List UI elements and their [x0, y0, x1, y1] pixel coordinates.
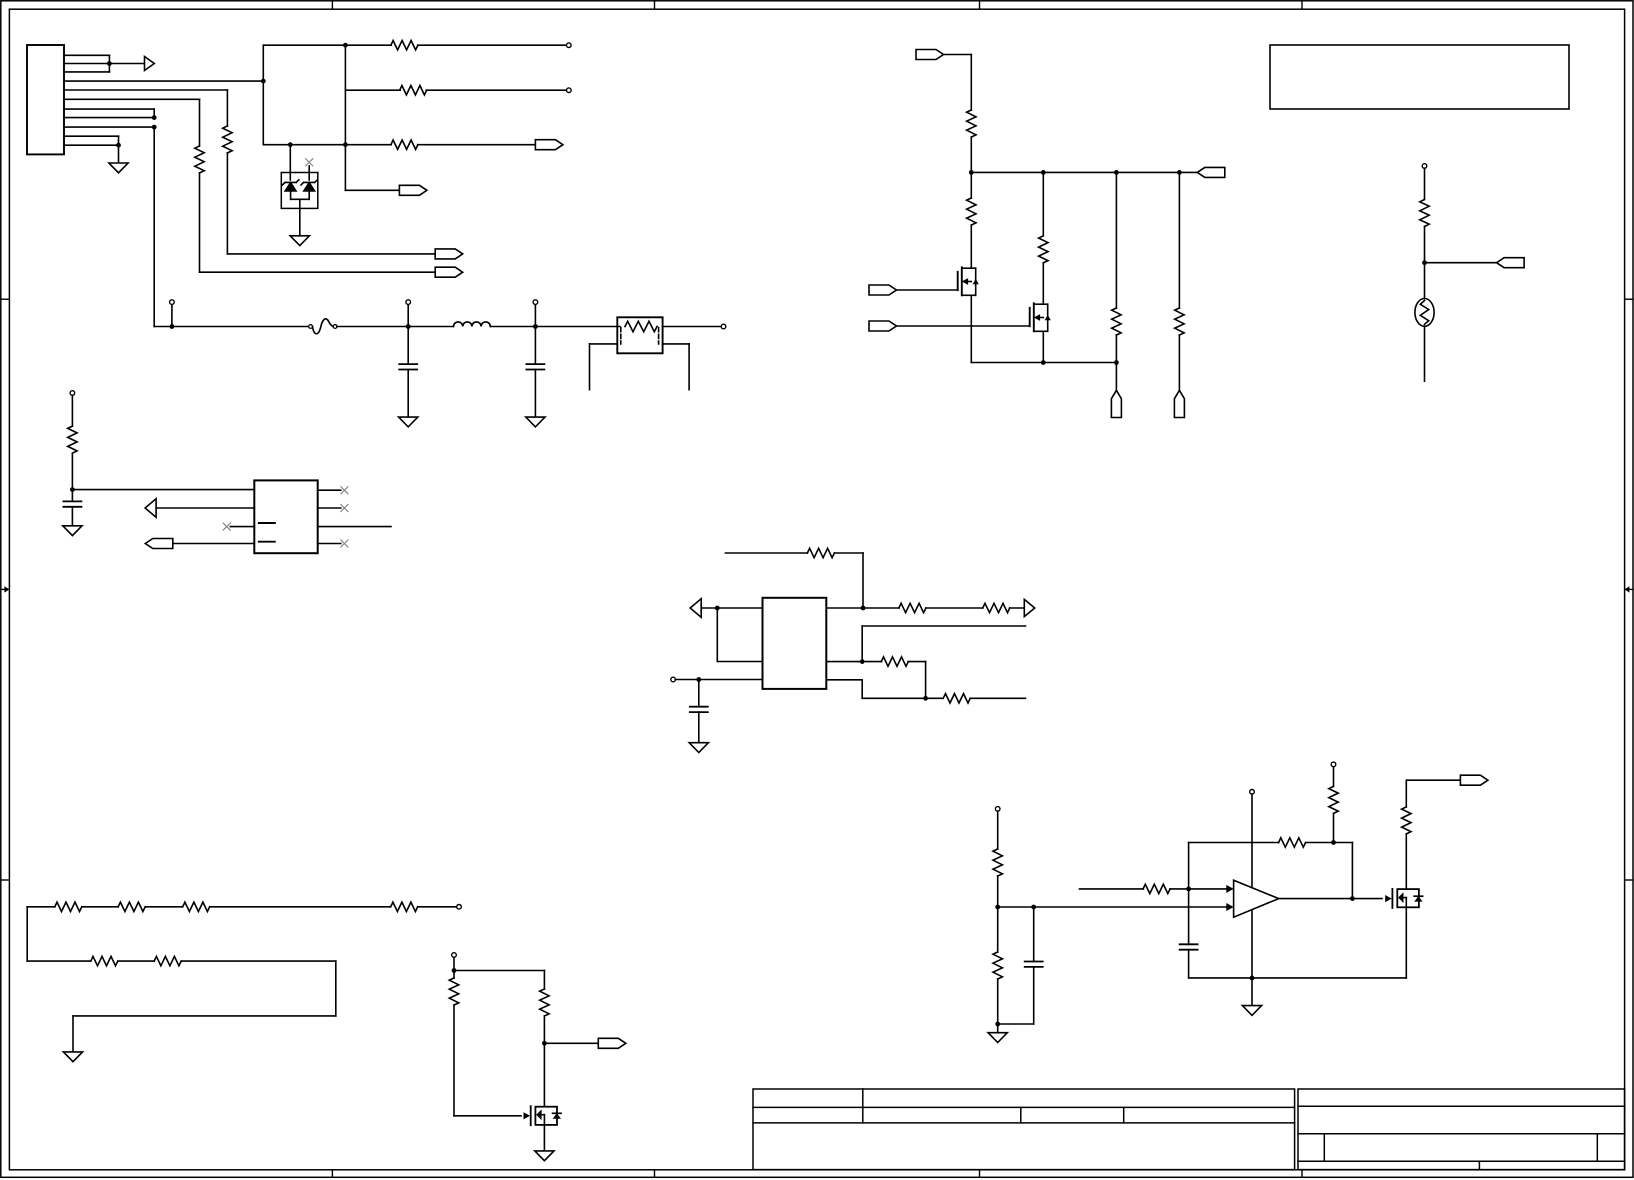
wire pin4 vertical riser: [262, 45, 264, 145]
wire node to flag: [1425, 262, 1497, 264]
net flag E1: [1460, 775, 1488, 785]
node output junction: [1350, 896, 1355, 901]
notes box: [1270, 45, 1569, 109]
net flag B2: [1197, 167, 1225, 177]
wire filter to terminal: [663, 326, 722, 328]
wire R30 riser: [1333, 813, 1335, 842]
IC U4: [763, 598, 827, 689]
title right col line 2: [1596, 1134, 1598, 1161]
node row3 riser junction: [343, 142, 348, 147]
wire riser3 upper: [1115, 172, 1117, 308]
resistor R29: [1279, 838, 1306, 847]
input arrow IC4 in: [690, 599, 701, 618]
no-connect X IC2 pin3: [223, 523, 230, 530]
wire opamp plus chain: [1080, 888, 1144, 890]
wire opamp output: [1279, 898, 1382, 900]
wire C2 to ground: [534, 370, 536, 418]
wire flag B1 to riser: [944, 54, 972, 56]
ground connector: [109, 163, 128, 173]
ground C2: [526, 417, 545, 427]
wire chain1 start: [27, 906, 55, 908]
resistor R11: [1175, 308, 1184, 335]
wire R14 to R15: [926, 607, 983, 609]
node C5 junction: [1031, 905, 1036, 910]
wire R1 to flag: [226, 153, 228, 254]
wire node to R27: [997, 907, 999, 952]
border zone tick left: [1, 298, 10, 300]
wire feedback top rail: [1189, 842, 1279, 844]
wire mid line2 corner: [861, 626, 863, 662]
wire L1 to filter: [490, 326, 620, 328]
title right row line 1: [1298, 1105, 1625, 1107]
wire TP9 to IC4: [675, 679, 762, 681]
testpoint TP10: [457, 905, 462, 910]
ground divider2: [988, 1033, 1007, 1043]
wire R7 to rail: [970, 137, 972, 198]
title left col line 2: [1020, 1107, 1022, 1123]
border zone tick bottom: [654, 1170, 656, 1178]
wire IC2 pin8 stub: [318, 543, 341, 545]
title left col line 3: [1123, 1107, 1125, 1123]
wire chain2 left: [73, 1015, 336, 1017]
resistor R1: [223, 126, 232, 153]
wire IC2 pin1 input: [72, 489, 254, 491]
wire IC4 out1: [826, 607, 899, 609]
wire zener top lead: [289, 145, 291, 180]
wire riser4 lower: [1178, 335, 1180, 390]
zener D1b: [301, 180, 317, 185]
wire J1 pin7: [64, 108, 154, 110]
border center arrow left: [1, 588, 5, 590]
wire Q3 drain riser: [1405, 834, 1407, 889]
node divider top: [452, 968, 457, 973]
testpoint TP11: [452, 953, 457, 958]
filter FL1 resistor: [625, 321, 657, 331]
wire R6 to node: [71, 453, 73, 489]
wire R5 to flag: [418, 144, 536, 146]
ground C1: [399, 417, 418, 427]
resistor R10: [1112, 308, 1121, 335]
wire C4 to ground: [698, 712, 700, 743]
wire node to cap C3: [71, 490, 73, 502]
wire TP12 to R26: [997, 811, 999, 849]
node pin4 junction: [261, 79, 266, 84]
wire R2 to flag: [199, 173, 201, 272]
wire TP3 stem: [171, 304, 173, 326]
title right col line 3: [1478, 1161, 1480, 1169]
output buffer arrow: [145, 57, 155, 71]
wire cap C2 stem: [534, 327, 536, 365]
wire R28 to opamp: [1170, 888, 1227, 890]
capacitor C2: [526, 363, 544, 365]
wire chain1 a: [82, 906, 118, 908]
net flag D1: [598, 1038, 626, 1048]
node rail1 j4: [1177, 170, 1182, 175]
node C-L junction 2: [533, 324, 538, 329]
border zone tick top: [654, 1, 656, 9]
wire R8 to Q1 drain: [970, 225, 972, 268]
wire cap C1 stem: [407, 327, 409, 365]
ground opamp: [1242, 1006, 1261, 1016]
wire J1 pin8: [64, 117, 154, 119]
node row1 junction: [343, 43, 348, 48]
node bottom rail j1: [1250, 976, 1255, 981]
wire Q2 gate: [897, 325, 1030, 327]
title left col line 1: [862, 1089, 864, 1123]
node flag D junction: [542, 1041, 547, 1046]
wire IC4 out3: [826, 679, 862, 681]
resistor R24: [449, 978, 458, 1005]
wire row3: [263, 144, 391, 146]
capacitor C3: [63, 500, 81, 502]
wire divider top across: [454, 970, 544, 972]
resistor R12: [1420, 200, 1429, 227]
resistor R8: [967, 198, 976, 225]
testpoint TP14: [1250, 790, 1255, 795]
capacitor C1: [399, 363, 417, 365]
resistor R14: [899, 603, 926, 612]
resistor R16: [881, 657, 908, 666]
opamp minus arrow: [1226, 903, 1233, 911]
node pin7-8 junction: [152, 115, 157, 120]
wire IC4 in branch down: [716, 608, 718, 662]
transistor Q4: [524, 1112, 531, 1119]
port P1: [1111, 390, 1121, 417]
wire J1 pin1: [64, 54, 109, 56]
title left row line 1: [753, 1106, 1295, 1108]
net flag B1: [916, 50, 944, 60]
resistor R7: [967, 110, 976, 137]
border zone tick right: [1625, 879, 1633, 881]
wire node2 to ground: [997, 1024, 999, 1033]
resistor R5: [391, 140, 418, 149]
wire arrow to IC2 pin2: [156, 507, 254, 509]
wire R25 down: [543, 1016, 545, 1107]
node pin1-2-3 junction: [107, 61, 112, 66]
wire C5 stem: [1033, 907, 1035, 962]
wire zener anodes join: [291, 198, 310, 200]
wire row2: [345, 89, 400, 91]
wire chain2 b: [181, 960, 336, 962]
node rail2 j1: [1041, 360, 1046, 365]
wire R27 to node2: [997, 979, 999, 1024]
connector J1: [27, 45, 64, 154]
wire R12 to node: [1424, 227, 1426, 299]
testpoint TP3: [170, 300, 175, 305]
output arrow IC4: [1024, 599, 1034, 616]
wire fuse to node: [337, 326, 454, 328]
transistor Q3: [1385, 895, 1392, 902]
resistor R28: [1143, 884, 1170, 893]
transistor Q1: [957, 272, 959, 290]
wire Q2 source: [1042, 331, 1044, 362]
ground Q4: [535, 1151, 554, 1161]
node C4 junction: [696, 677, 701, 682]
node rail2 j2: [1114, 360, 1119, 365]
transistor Q2: [1029, 308, 1031, 326]
wire pin9 down to main rail: [153, 127, 155, 326]
ground C3: [63, 526, 82, 536]
wire R26 to node: [997, 876, 999, 907]
net flag B3 gate1: [869, 285, 897, 295]
net flag A3: [535, 140, 563, 150]
wire J1 pin1 to pin3 join: [108, 55, 110, 72]
wire feedback riser up: [1188, 843, 1190, 889]
wire R4 to testpoint: [426, 89, 566, 91]
wire TP11 stem: [453, 957, 455, 978]
wire chain1 b: [145, 906, 183, 908]
wire J1 pin3: [64, 71, 109, 73]
title left row line 2: [753, 1122, 1295, 1124]
net flag A4: [399, 185, 427, 195]
wire chain2 down: [335, 961, 337, 1016]
resistor R21: [391, 902, 418, 911]
title block right: [1298, 1089, 1625, 1170]
port P2: [1174, 390, 1184, 417]
node feedback junction: [1186, 887, 1191, 892]
wire chain2 a: [118, 960, 154, 962]
border zone tick bottom: [331, 1170, 333, 1178]
wire TP8 to R12: [1424, 168, 1426, 199]
wire J1 pin4: [64, 80, 263, 82]
wire IC4 out2: [826, 661, 881, 663]
wire J1 pin11: [64, 144, 119, 146]
node divider2 mid: [995, 905, 1000, 910]
capacitor C4: [690, 706, 708, 708]
node pin8-9 junction: [152, 125, 157, 130]
ground C4: [689, 743, 708, 753]
net flag B4 gate2: [869, 321, 897, 331]
wire R3 to testpoint: [418, 44, 567, 46]
border center arrow right: [1629, 588, 1633, 590]
wire C6 to rail: [1188, 950, 1190, 978]
node fb j: [1331, 840, 1336, 845]
wire row1-row2 riser: [344, 45, 346, 190]
resistor R27: [993, 952, 1002, 979]
no-connect X IC2 pin5: [341, 487, 348, 494]
node IC4 in junction: [715, 606, 720, 611]
wire opamp minus input: [998, 906, 1227, 908]
inductor L1: [454, 322, 491, 327]
resistor R19: [118, 902, 145, 911]
node out1 junction: [861, 606, 866, 611]
wire R17 right: [970, 697, 1025, 699]
wire R9 to Q2 drain: [1042, 263, 1044, 304]
fuse F1: [309, 325, 313, 329]
filter FL1 box: [617, 317, 662, 353]
input arrow IC2 pin2: [145, 499, 156, 518]
node row3 zener junction: [288, 142, 293, 147]
wire rail2: [971, 362, 1116, 364]
wire feedback corner: [834, 552, 863, 554]
wire IC2 pin6 stub: [318, 507, 341, 509]
border zone tick top: [331, 1, 333, 9]
wire zener to ground: [299, 199, 301, 236]
no-connect X IC2 pin6: [341, 504, 348, 511]
net flag C1: [1497, 258, 1525, 268]
wire row1: [263, 44, 391, 46]
wire opamp bottom rail: [1189, 977, 1407, 979]
resistor R3: [391, 41, 418, 50]
wire R24 down to gate: [453, 1005, 455, 1116]
wire chain1 d: [418, 906, 457, 908]
resistor R30: [1329, 786, 1338, 813]
wire Q4 source to ground: [543, 1125, 545, 1151]
wire rail to ground: [1251, 978, 1253, 1006]
resistor R17: [943, 694, 970, 703]
node rail1 left: [969, 170, 974, 175]
no-connect X mark: [306, 159, 313, 166]
IC U2: [254, 480, 317, 553]
node rail1 j2: [1041, 170, 1046, 175]
wire TP4 stem: [407, 304, 409, 326]
wire feedback top: [726, 552, 808, 554]
testpoint TP6: [721, 324, 726, 329]
wire riser4 upper: [1178, 172, 1180, 308]
testpoint TP13: [1331, 762, 1336, 767]
wire C1 to ground: [407, 370, 409, 418]
filter FL1 left terminal: [590, 343, 618, 345]
wire feedback riser down: [1188, 889, 1190, 944]
wire arrow to IC4: [701, 607, 762, 609]
IC U2 pin bar 1: [259, 522, 275, 524]
wire C5 bottom: [1033, 967, 1035, 1024]
resistor R22: [91, 956, 118, 965]
resistor R15: [983, 603, 1010, 612]
dual zener D1 box: [281, 173, 318, 209]
wire opamp power: [1251, 794, 1253, 978]
wire fb resistor to corner: [1306, 842, 1353, 844]
wire R30 to TP13: [1333, 767, 1335, 787]
wire Q1 source: [970, 295, 972, 362]
node rail1 j3: [1114, 170, 1119, 175]
node C-L junction 1: [406, 324, 411, 329]
wire rail1: [971, 171, 1197, 173]
wire flag to IC2 pin4: [173, 543, 255, 545]
node pin10-11 junction: [116, 143, 121, 148]
wire chain2 gnd stem: [72, 1016, 74, 1052]
wire thermistor down: [1424, 326, 1426, 381]
wire IC2 pin7: [318, 526, 391, 528]
node thermistor junction: [1422, 260, 1427, 265]
title right row line 2: [1298, 1133, 1625, 1135]
capacitor C6: [1180, 943, 1198, 945]
wire J1 pin6: [64, 98, 200, 100]
node out3 junction: [923, 696, 928, 701]
wire C3 to ground: [71, 507, 73, 526]
testpoint TP1: [567, 43, 572, 48]
resistor R18: [55, 902, 82, 911]
wire J1 pin5: [64, 89, 227, 91]
wire Q1 gate: [897, 289, 958, 291]
ground zener: [290, 236, 309, 246]
resistor R13: [807, 548, 834, 557]
wire R15 to arrow: [1010, 607, 1025, 609]
wire Q3 source: [1405, 907, 1407, 978]
testpoint TP9: [671, 677, 676, 682]
net flag A2: [435, 267, 463, 277]
border zone tick right: [1625, 298, 1633, 300]
wire zener NC lead: [308, 166, 310, 180]
border zone tick bottom: [1301, 1170, 1303, 1178]
testpoint TP5: [533, 300, 538, 305]
resistor R4: [400, 86, 427, 95]
resistor R6: [68, 426, 77, 453]
wire R31 to flag: [1405, 780, 1407, 807]
resistor R25: [540, 989, 549, 1016]
testpoint TP12: [995, 807, 1000, 812]
wire C4 stem: [698, 680, 700, 707]
zener D1a: [282, 180, 298, 185]
resistor R9: [1039, 236, 1048, 263]
resistor R2: [195, 146, 204, 173]
border zone tick bottom: [979, 1170, 981, 1178]
title right col line 1: [1323, 1134, 1325, 1161]
ground chain2: [63, 1052, 82, 1062]
wire node to flag D: [544, 1042, 598, 1044]
capacitor C5: [1025, 961, 1043, 963]
wire mid line2: [862, 625, 1025, 627]
node TP3 junction: [170, 324, 175, 329]
filter FL1 right terminal: [663, 343, 690, 345]
resistor R31: [1402, 807, 1411, 834]
filter FL1 dashed plates: [621, 328, 659, 345]
wire riser2: [1042, 172, 1044, 235]
border zone tick top: [979, 1, 981, 9]
title table left: [753, 1089, 1295, 1170]
op-amp U5: [1234, 880, 1279, 917]
wire TP7 to R6: [71, 395, 73, 426]
resistor R26: [993, 849, 1002, 876]
net flag A1: [435, 249, 463, 259]
wire IC2 pin5 stub: [318, 489, 341, 491]
wire pin11 to ground: [118, 145, 120, 163]
wire chain1 c: [210, 906, 391, 908]
title right row line 3: [1298, 1160, 1625, 1162]
opamp plus arrow: [1226, 885, 1233, 893]
testpoint TP4: [406, 300, 411, 305]
border zone tick left: [1, 879, 10, 881]
wire main rail left: [154, 326, 309, 328]
testpoint TP8: [1422, 164, 1427, 169]
thermistor RT1: [1415, 299, 1434, 327]
testpoint TP2: [567, 88, 572, 93]
wire chain1-chain2 left riser: [26, 907, 28, 961]
resistor R23: [154, 956, 181, 965]
net flag A5: [145, 539, 173, 549]
IC U2 pin bar 2: [259, 541, 275, 543]
wire riser to flag A4: [345, 189, 399, 191]
wire TP5 stem: [534, 304, 536, 326]
wire fb corner down: [1351, 843, 1353, 899]
node R6-C3 junction: [70, 487, 75, 492]
wire R16 corner: [908, 661, 926, 663]
node out2 junction: [860, 659, 865, 664]
wire J1 pin9: [64, 126, 154, 128]
border zone tick top: [1301, 1, 1303, 9]
wire IC2 pin3 stub: [230, 526, 254, 528]
wire chain2 start: [27, 960, 91, 962]
resistor R20: [183, 902, 210, 911]
wire riser3 lower: [1115, 335, 1117, 390]
node divider2 bottom: [995, 1022, 1000, 1027]
wire J1 pin2: [64, 63, 145, 65]
wire J1 pin10: [64, 135, 119, 137]
no-connect X IC2 pin8: [341, 540, 348, 547]
testpoint TP7: [70, 391, 75, 396]
